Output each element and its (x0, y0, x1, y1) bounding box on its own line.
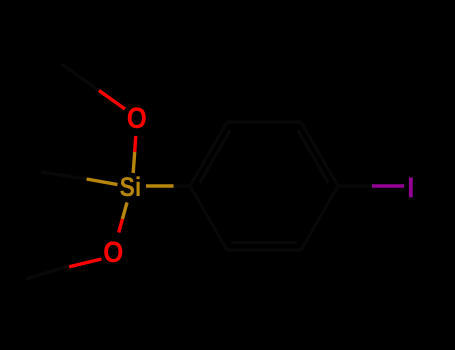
atom label O top (128, 107, 146, 128)
bond Si-C(methyl left) : carbon half (41, 172, 87, 179)
bond O bottom-C(methyl) : carbon half (26, 266, 69, 279)
bond Si-ring : carbon half (174, 184, 192, 187)
bond Si-O bottom : silicon half (122, 203, 127, 220)
bond O top-Si : silicon half (133, 152, 135, 173)
bond O bottom-C(methyl) : oxygen half (69, 259, 102, 267)
bond Si-O bottom : oxygen half (119, 219, 123, 233)
bond O top-Si : oxygen half (135, 136, 136, 152)
bond C(methyl)-O top : oxygen half (99, 91, 125, 110)
benzene ring (190, 122, 338, 250)
atom label Si (120, 176, 139, 196)
bond Si-C(methyl left) : silicon half (87, 179, 118, 185)
ring hexagon outline (190, 122, 338, 250)
ring double bond inner BR-BL (232, 241, 297, 244)
atom label I (409, 177, 413, 197)
bond ring-I : iodine half (372, 184, 404, 188)
bond ring-I : carbon half (337, 184, 372, 188)
bond Si-ring : silicon half (146, 184, 174, 187)
atom label O bottom (104, 241, 122, 262)
ring double bond inner L-TL (200, 131, 231, 184)
bond C(methyl)-O top : carbon half (62, 64, 100, 91)
ring double bond inner TR-R (298, 131, 329, 184)
